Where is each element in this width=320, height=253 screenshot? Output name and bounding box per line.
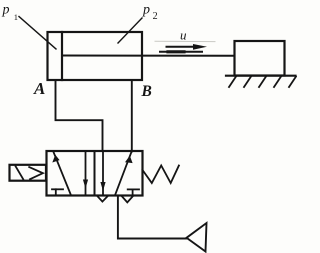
ground hatch 4: [274, 77, 281, 88]
svg-text:1: 1: [14, 12, 18, 22]
right exhaust arrowhead: [122, 196, 134, 203]
left cell vertical flow arrow: [85, 151, 87, 195]
actuator arrow: [29, 167, 43, 179]
left cell diagonal flow arrow: [54, 152, 71, 195]
leader line p2: [118, 18, 142, 43]
svg-text:u: u: [180, 28, 187, 43]
ground hatch 1: [229, 77, 236, 88]
wire port B to valve: [131, 80, 133, 152]
mass block: [235, 41, 285, 76]
solenoid actuator box: [10, 165, 47, 181]
velocity arrow u upper stroke: [167, 46, 197, 48]
supply wire to funnel: [118, 196, 186, 239]
wire port A to valve: [56, 80, 103, 151]
leader line p1: [19, 17, 56, 50]
velocity arrow u lower stroke: [160, 51, 202, 53]
ground hatch 2: [244, 77, 251, 88]
svg-text:p: p: [2, 3, 10, 18]
valve position divider: [94, 151, 96, 196]
piston rod: [63, 55, 235, 57]
ground line: [226, 75, 296, 77]
right cell vertical flow arrow: [102, 151, 104, 195]
ground hatch 3: [259, 77, 266, 88]
left exhaust arrowhead: [97, 196, 108, 202]
piston: [61, 32, 63, 80]
ground hatch 5: [289, 77, 296, 88]
solenoid diagonal stroke: [16, 166, 24, 179]
return spring: [143, 166, 179, 184]
cylinder body: [48, 32, 143, 80]
scan artifact faint line: [155, 40, 215, 42]
svg-text:B: B: [141, 83, 152, 100]
right cell diagonal flow arrow: [116, 152, 132, 194]
funnel (air source): [187, 223, 207, 252]
svg-text:A: A: [33, 79, 45, 98]
valve body: [47, 151, 143, 196]
left cell blocked port T: [52, 188, 63, 190]
right cell blocked port T: [128, 188, 139, 190]
svg-text:2: 2: [153, 11, 158, 22]
svg-text:p: p: [142, 3, 150, 18]
